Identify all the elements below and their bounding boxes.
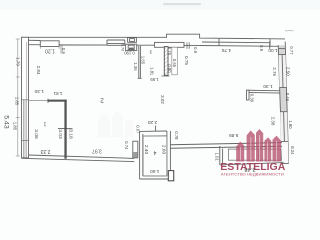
svg-text:0.76: 0.76 [121, 44, 125, 51]
svg-text:1.00: 1.00 [268, 47, 278, 53]
svg-text:0.78: 0.78 [174, 131, 179, 140]
svg-text:8.24: 8.24 [290, 146, 295, 155]
svg-text:2.40: 2.40 [143, 145, 149, 155]
svg-text:2.60: 2.60 [160, 145, 166, 155]
svg-text:1.30: 1.30 [263, 83, 273, 89]
left outside dimension line [16, 39, 20, 156]
svg-text:0.9: 0.9 [61, 48, 66, 54]
svg-text:0.77: 0.77 [289, 46, 294, 55]
svg-text:3.18: 3.18 [68, 129, 74, 139]
leader 2.20 [155, 126, 157, 132]
svg-text:1.79: 1.79 [16, 57, 21, 66]
svg-text:0.75: 0.75 [184, 56, 189, 65]
svg-text:0.65: 0.65 [172, 59, 177, 68]
window R2 [280, 112, 288, 142]
top wall inner line after W1 [59, 44, 107, 46]
svg-text:1.80: 1.80 [288, 120, 293, 129]
svg-text:1.99: 1.99 [150, 77, 159, 82]
svg-text:4: 4 [153, 149, 156, 155]
shaft lower box [126, 44, 137, 50]
svg-text:АГЕНТСТВО НЕДВИЖИМОСТИ: АГЕНТСТВО НЕДВИЖИМОСТИ [221, 172, 285, 176]
east top window band [200, 38, 279, 46]
svg-text:1.81: 1.81 [53, 91, 62, 96]
partition tick [58, 127, 73, 129]
room 1 right partition [64, 100, 66, 159]
room 1 top partition: door opening thin line [29, 100, 49, 102]
svg-text:4.75: 4.75 [222, 47, 232, 53]
vestibule partition thin (left) [138, 46, 142, 78]
bay room4 [140, 126, 174, 181]
vestibule partition hatched (right) [164, 47, 168, 76]
top wall inner line west [27, 44, 107, 46]
tower slits [240, 135, 276, 161]
svg-text:2.33: 2.33 [40, 148, 50, 154]
svg-text:0.80: 0.80 [167, 64, 172, 73]
window R1 [279, 55, 287, 88]
svg-text:1.85: 1.85 [12, 122, 17, 131]
right exterior wall [278, 42, 288, 164]
svg-text:0.74: 0.74 [124, 141, 129, 150]
pilaster strip right of partition [172, 47, 178, 75]
east balcony [220, 146, 284, 165]
svg-text:1.36: 1.36 [133, 62, 138, 71]
svg-text:0.46: 0.46 [285, 93, 290, 102]
dimension texts [3, 44, 296, 174]
room 1 top partition wall segment [48, 100, 67, 102]
svg-text:1.30: 1.30 [34, 88, 44, 94]
svg-text:2: 2 [100, 97, 104, 104]
svg-text:0.76: 0.76 [167, 47, 172, 56]
svg-text:0.30: 0.30 [250, 94, 255, 103]
door jamb stub top [187, 42, 189, 48]
svg-text:2.50: 2.50 [285, 67, 290, 76]
svg-text:3.97: 3.97 [92, 147, 102, 153]
top-right corner faint arc [285, 30, 294, 32]
svg-text:3.06: 3.06 [33, 129, 39, 139]
top wall corner layer line [23, 39, 40, 41]
west bottom wall [22, 155, 135, 162]
partition bottom cap [162, 75, 170, 77]
window W1 end ticks [40, 45, 62, 53]
svg-text:3.03: 3.03 [57, 129, 63, 139]
top wall outer line [22, 34, 286, 39]
tower 1 [236, 142, 244, 162]
window W1 [40, 41, 59, 47]
bay door jamb (west side) [133, 141, 138, 158]
faint center ghost watermark [98, 110, 133, 137]
top-right partition stub [269, 42, 271, 49]
svg-text:5.89: 5.89 [229, 132, 239, 138]
tower 3 [256, 129, 263, 162]
svg-text:2.38: 2.38 [271, 117, 276, 126]
svg-text:1.85: 1.85 [14, 97, 19, 106]
svg-text:2.20: 2.20 [148, 119, 158, 125]
bottom cap [282, 163, 288, 165]
tower 2 [247, 131, 255, 162]
svg-text:2.76: 2.76 [272, 67, 277, 76]
svg-text:0.67: 0.67 [135, 125, 140, 134]
inner line to niche [137, 44, 155, 46]
shaft upper box [128, 38, 137, 43]
svg-text:1: 1 [43, 121, 46, 127]
svg-text:0.190: 0.190 [124, 51, 135, 56]
svg-text:3.02: 3.02 [160, 95, 165, 104]
left exterior wall [22, 37, 29, 158]
watermark logo [236, 129, 281, 162]
svg-text:3.48: 3.48 [244, 166, 255, 172]
svg-text:1.01: 1.01 [215, 153, 220, 162]
svg-text:1.20: 1.20 [45, 48, 55, 54]
faint smudge top [163, 3, 201, 5]
svg-text:1.81: 1.81 [150, 67, 155, 76]
tower 5 [273, 136, 282, 162]
niche window box [155, 42, 185, 47]
inner line niche to step [184, 45, 200, 47]
svg-text:1.60: 1.60 [150, 168, 160, 174]
svg-text:1.65: 1.65 [141, 56, 146, 65]
svg-text:2.84: 2.84 [36, 66, 41, 75]
east bottom wall [170, 143, 282, 149]
door jamb tick [47, 99, 49, 103]
right interior horizontal partition [247, 90, 282, 100]
svg-text:0.9: 0.9 [193, 47, 198, 53]
tower 4 [264, 137, 271, 161]
svg-text:0.9: 0.9 [259, 45, 264, 51]
svg-text:5.43: 5.43 [3, 115, 10, 128]
small box at bay bottom right [168, 171, 173, 181]
window W2 [107, 40, 125, 45]
